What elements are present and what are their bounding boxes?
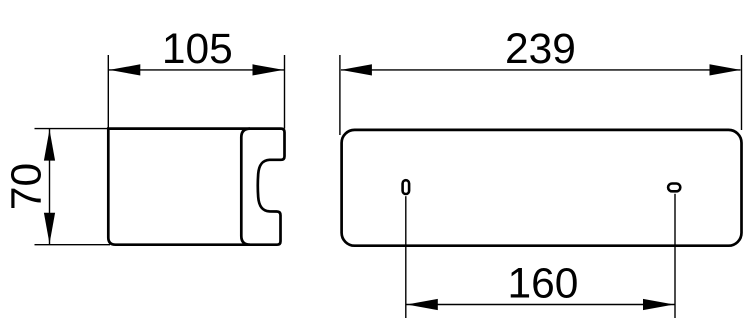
front-view body outline: [342, 130, 742, 246]
front-view left mounting slot (vertical): [403, 180, 410, 194]
front-view right mounting slot (horizontal): [668, 184, 680, 192]
dimension 160: right arrowhead: [643, 299, 674, 310]
dimension 239: extension lines: [339, 55, 341, 135]
svg-text:160: 160: [508, 261, 579, 308]
dimension 105: right arrowhead: [253, 64, 284, 75]
dimension 70: extension lines: [35, 128, 109, 130]
dimension 70: bottom arrowhead: [44, 213, 55, 244]
side-view inner edge line: [241, 129, 250, 245]
side-view profile outline: [108, 129, 284, 245]
dimension 105: extension lines: [107, 55, 109, 129]
dimension 160: left arrowhead: [407, 299, 438, 310]
svg-text:105: 105: [162, 26, 233, 73]
dimension 239: right arrowhead: [710, 64, 741, 75]
dimension 160: extension lines: [405, 196, 407, 318]
svg-text:70: 70: [3, 163, 50, 210]
dimension 239: dimension line: [341, 69, 741, 71]
svg-text:239: 239: [505, 26, 576, 73]
dimension 105: dimension line: [108, 69, 284, 71]
dimension 105: left arrowhead: [109, 64, 140, 75]
dimension 160: dimension line: [406, 304, 675, 306]
dimension 70: top arrowhead: [44, 130, 55, 161]
dimension 70: dimension line: [49, 129, 51, 245]
dimension 239: left arrowhead: [341, 64, 372, 75]
